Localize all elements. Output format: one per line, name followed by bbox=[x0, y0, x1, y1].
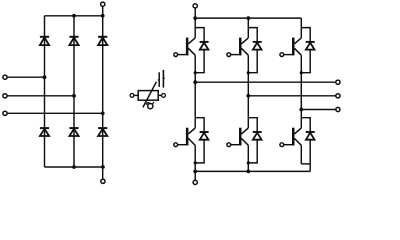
wire: rectifier column 2 bbox=[73, 16, 75, 167]
node: inverter rail dot leg2 top bbox=[246, 16, 250, 20]
diode D3 bbox=[98, 37, 107, 45]
thermistor R1 diagonal stroke bbox=[143, 82, 157, 108]
diode D4 bbox=[40, 128, 49, 136]
terminal: phase W bbox=[336, 107, 340, 111]
thermistor R1 terminal left bbox=[130, 94, 134, 98]
node: leg 3 top loop junction bbox=[300, 71, 303, 74]
node: leg 2 bottom loop junction bbox=[247, 161, 250, 164]
node: rail dot col3 top bbox=[101, 14, 105, 18]
node: phase V junction bbox=[246, 94, 250, 98]
wire: inverter DC+ terminal stub bbox=[194, 8, 196, 18]
wire: rectifier bottom rail (DC-) bbox=[45, 166, 103, 168]
terminal: inverter DC- bbox=[193, 180, 197, 184]
terminal: phase V bbox=[336, 94, 340, 98]
node: input 1 junction bbox=[43, 75, 47, 79]
wire: thermistor left lead bbox=[134, 94, 138, 96]
node: inverter rail dot leg1 top bbox=[193, 16, 197, 20]
diode D9 (antiparallel, top of leg 3) bbox=[301, 28, 314, 73]
node: inverter rail dot leg2 bottom bbox=[246, 170, 250, 174]
IGBT Q3 (top of leg 3) bbox=[280, 18, 301, 118]
isolation bar left bbox=[158, 72, 159, 87]
node: inverter rail dot leg1 bottom bbox=[193, 170, 197, 174]
IGBT Q5 (bottom of leg 2) bbox=[227, 118, 248, 172]
junction dots rectifier bbox=[43, 14, 304, 173]
IGBT Q2 (top of leg 2) bbox=[227, 18, 248, 118]
terminal: AC input 1 bbox=[3, 75, 7, 79]
wire: thermistor right lead bbox=[158, 94, 162, 96]
terminal: phase U bbox=[336, 80, 340, 84]
wire: AC input 1 to column 1 bbox=[7, 76, 44, 78]
wire: inverter bottom rail (DC-) bbox=[195, 170, 310, 172]
IGBT Q6 (bottom of leg 3) bbox=[280, 118, 301, 164]
node: rail dot col3 bottom bbox=[101, 165, 105, 169]
node: input 3 junction bbox=[101, 111, 105, 115]
wire: rectifier column 3 with terminal stubs bbox=[102, 6, 104, 179]
wire: AC input 3 to column 3 bbox=[7, 112, 103, 114]
node: leg 1 top loop junction bbox=[194, 71, 197, 74]
diode D8 (antiparallel, top of leg 2) bbox=[248, 28, 261, 73]
terminal: AC input 2 bbox=[3, 94, 7, 98]
terminal: inverter DC+ bbox=[193, 4, 197, 8]
diode D6 bbox=[98, 128, 107, 136]
node: phase U junction bbox=[193, 80, 197, 84]
isolation bar right bbox=[163, 70, 165, 88]
wire: inverter DC- terminal stub bbox=[194, 171, 196, 180]
IGBT Q1 (top of leg 1) bbox=[174, 18, 195, 118]
wire: phase W output bbox=[301, 109, 336, 111]
node: rail dot col2 bottom bbox=[72, 165, 76, 169]
wire: rectifier top rail (DC+) bbox=[45, 15, 103, 17]
diode D7 (antiparallel, top of leg 1) bbox=[195, 28, 208, 73]
node: input 2 junction bbox=[72, 94, 76, 98]
node: leg 2 top loop junction bbox=[247, 71, 250, 74]
thermistor R1 body bbox=[138, 91, 158, 101]
IGBT Q4 (bottom of leg 1) bbox=[174, 118, 195, 172]
diode D10 (antiparallel, bottom of leg 1) bbox=[195, 118, 208, 163]
wire: inverter top rail (DC+) bbox=[195, 17, 301, 19]
wire: phase U output bbox=[195, 81, 336, 83]
terminal: rectifier DC- bbox=[101, 179, 105, 183]
diode D1 bbox=[40, 37, 49, 45]
diode D5 bbox=[69, 128, 78, 136]
terminal: rectifier DC+ bbox=[101, 2, 105, 6]
wire: phase V output bbox=[248, 95, 335, 97]
wire: rectifier column 1 bbox=[44, 16, 46, 167]
wire: AC input 2 to column 2 bbox=[7, 95, 74, 97]
diode D12 (antiparallel, bottom of leg 3) bbox=[301, 118, 314, 172]
node: leg 1 bottom loop junction bbox=[194, 161, 197, 164]
thermistor R1 terminal right bbox=[162, 94, 166, 98]
terminal: AC input 3 bbox=[3, 111, 7, 115]
thermistor R1 theta mark bbox=[146, 102, 154, 109]
node: rail dot col2 top bbox=[72, 14, 76, 18]
node: phase W junction bbox=[299, 108, 303, 112]
diode D2 bbox=[69, 37, 78, 45]
diode D11 (antiparallel, bottom of leg 2) bbox=[248, 118, 261, 163]
